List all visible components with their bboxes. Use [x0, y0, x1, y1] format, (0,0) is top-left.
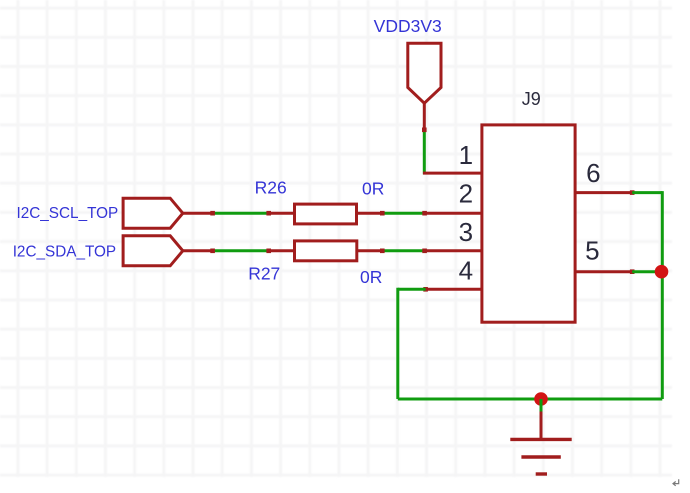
wire pin 5 to right rail (green)	[632, 270, 662, 273]
wire ground stub (green)	[540, 399, 543, 412]
svg-text:I2C_SCL_TOP: I2C_SCL_TOP	[17, 205, 119, 222]
wire pin 6 stub (red)	[575, 191, 632, 194]
wire endpoint mark left of R26 a	[210, 211, 215, 216]
wire endpoint mark pin 6	[630, 190, 635, 195]
wire endpoint mark right of R26 b	[422, 211, 427, 216]
wire R26 left pin stub (red)	[269, 212, 296, 215]
return glyph bottom right	[673, 479, 679, 486]
port I2C_SDA_TOP symbol	[123, 236, 183, 266]
junction dot pin 5 / right rail	[655, 265, 669, 279]
wire pin 5 stub (red)	[575, 270, 632, 273]
ground symbol bar 2	[521, 455, 560, 458]
svg-text:6: 6	[586, 158, 600, 188]
wire ground pin (red)	[540, 412, 543, 440]
wire port I2C_SDA_TOP pin stub (red)	[183, 249, 211, 252]
wire VDD3V3 to pin 1 vertical (green)	[423, 130, 426, 174]
wire R27 left pin stub (red)	[269, 249, 296, 252]
wire R27 right pin stub (red)	[357, 249, 381, 252]
svg-text:2: 2	[459, 179, 473, 209]
ground symbol bar 1	[510, 438, 571, 441]
wire pin 4 horizontal (green)	[398, 288, 426, 291]
wire pin 1 horizontal (red)	[423, 172, 482, 175]
connector J9 body	[482, 125, 575, 322]
svg-text:5: 5	[585, 236, 599, 266]
wire pin 3 stub (red)	[425, 249, 482, 252]
wire endpoint mark left of R27 b	[266, 249, 271, 254]
wire R26 to pin 2 (green)	[381, 212, 425, 215]
wire pin 4 vertical down (green)	[396, 288, 399, 399]
svg-text:J9: J9	[522, 89, 541, 109]
wire right rail vertical (green)	[661, 191, 664, 399]
wire pin 2 stub (red)	[425, 212, 482, 215]
wire endpoint mark left of R27 a	[210, 249, 215, 254]
wire I2C_SCL_TOP to R26 (green)	[211, 212, 269, 215]
wire port I2C_SCL_TOP pin stub (red)	[183, 212, 211, 215]
svg-text:3: 3	[459, 217, 473, 247]
resistor R26 body	[295, 204, 357, 224]
port I2C_SCL_TOP symbol	[123, 198, 183, 228]
wire endpoint mark right of R27 b	[422, 249, 427, 254]
power flag VDD3V3 symbol	[408, 43, 441, 103]
resistor R27 body	[295, 241, 357, 261]
wire endpoint mark right of R26 a	[380, 211, 385, 216]
svg-text:0R: 0R	[362, 179, 384, 199]
wire endpoint mark right of R27 a	[380, 249, 385, 254]
wire R27 to pin 3 (green)	[381, 249, 425, 252]
wire endpoint mark pin 4	[423, 287, 428, 292]
ground symbol bar 3	[536, 472, 547, 475]
junction dot bottom wire / ground	[534, 392, 548, 406]
svg-text:R27: R27	[248, 263, 280, 283]
svg-text:I2C_SDA_TOP: I2C_SDA_TOP	[13, 244, 116, 261]
wire endpoint mark VDD net	[422, 128, 427, 133]
wire pin 4 stub (red)	[425, 288, 482, 291]
svg-text:0R: 0R	[360, 267, 382, 287]
wire bottom horizontal (green)	[398, 398, 663, 401]
svg-text:4: 4	[459, 255, 473, 285]
wire VDD3V3 pin stub (red)	[423, 102, 426, 130]
svg-text:R26: R26	[255, 177, 287, 197]
svg-text:1: 1	[459, 140, 473, 170]
wire pin 6 to right rail (green)	[632, 191, 662, 194]
wire endpoint mark pin 5	[630, 269, 635, 274]
svg-text:VDD3V3: VDD3V3	[374, 16, 442, 36]
wire R26 right pin stub (red)	[357, 212, 382, 215]
wire endpoint mark left of R26 b	[266, 211, 271, 216]
wire I2C_SDA_TOP to R27 (green)	[211, 249, 269, 252]
